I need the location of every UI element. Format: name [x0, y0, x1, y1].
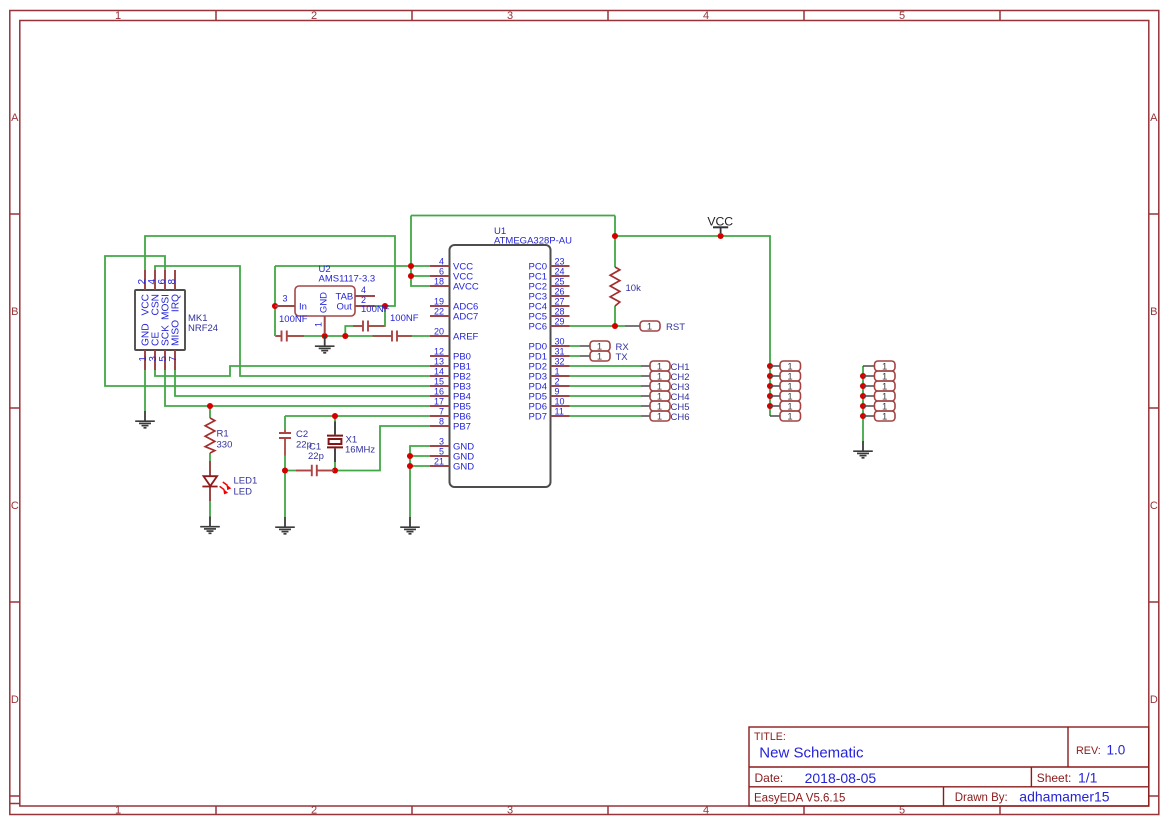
- MK1 pin names VCC CSN MOSI IRQ: [141, 294, 182, 320]
- wire: PC6 to RST: [570, 325, 626, 327]
- svg-text:adhamamer15: adhamamer15: [1019, 789, 1109, 805]
- wire: U2 Out cap branch: [345, 306, 385, 336]
- svg-text:CH6: CH6: [671, 412, 690, 423]
- U1 right pin names: [529, 262, 547, 423]
- junction VCC pin6: [408, 273, 414, 279]
- ground (header J2): [853, 441, 873, 458]
- svg-text:10k: 10k: [626, 283, 642, 294]
- svg-text:1/1: 1/1: [1078, 770, 1098, 786]
- svg-text:7: 7: [168, 356, 179, 362]
- svg-text:6: 6: [439, 267, 444, 277]
- svg-text:31: 31: [555, 347, 565, 357]
- wires: [105, 216, 863, 518]
- header J2 GND pins: [863, 361, 895, 423]
- svg-text:3: 3: [439, 437, 444, 447]
- svg-text:D: D: [1150, 694, 1158, 706]
- wire: VCC rail to header: [615, 236, 770, 416]
- svg-text:14: 14: [434, 367, 444, 377]
- svg-text:22p: 22p: [308, 451, 324, 462]
- svg-text:LED: LED: [234, 487, 253, 498]
- svg-text:29: 29: [555, 317, 565, 327]
- wire: NRF pin5 SCK to U1 PB5: [165, 370, 430, 406]
- svg-text:11: 11: [555, 407, 564, 417]
- svg-text:25: 25: [555, 277, 565, 287]
- svg-text:EasyEDA V5.6.15: EasyEDA V5.6.15: [754, 793, 845, 805]
- pad RST: [625, 321, 685, 333]
- svg-text:100NF: 100NF: [390, 313, 419, 324]
- svg-text:3: 3: [282, 294, 287, 304]
- junction AREF cap: [342, 333, 348, 339]
- svg-text:1: 1: [555, 367, 560, 377]
- svg-text:28: 28: [555, 307, 565, 317]
- svg-text:1: 1: [597, 352, 602, 363]
- svg-text:AMS1117-3.3: AMS1117-3.3: [319, 274, 376, 285]
- svg-text:16MHz: 16MHz: [345, 445, 375, 456]
- wire: NRF pin3 CE to U1 PB1: [155, 366, 430, 376]
- U1 left pin numbers: [434, 257, 444, 467]
- svg-text:1: 1: [115, 10, 121, 22]
- svg-text:Drawn By:: Drawn By:: [955, 792, 1008, 804]
- capacitor 100NF (In side): [276, 314, 308, 342]
- svg-text:TX: TX: [616, 352, 629, 363]
- junction GND21: [407, 463, 413, 469]
- svg-text:27: 27: [555, 297, 565, 307]
- wire: PD2-PD7 to CH pads: [570, 366, 642, 416]
- MK1 pin names GND CE SCK MISO: [141, 320, 182, 346]
- ic U1 ATMEGA328P-AU: [430, 226, 572, 487]
- svg-text:PB7: PB7: [453, 422, 471, 433]
- svg-text:A: A: [11, 112, 19, 124]
- junction U2 In: [272, 303, 278, 309]
- svg-text:TITLE:: TITLE:: [754, 731, 786, 743]
- LED light arrows: [220, 482, 232, 494]
- svg-text:5: 5: [439, 447, 444, 457]
- svg-text:9: 9: [555, 387, 560, 397]
- wire: 10k leads: [614, 236, 616, 326]
- svg-text:1: 1: [314, 322, 324, 327]
- svg-text:24: 24: [555, 267, 565, 277]
- svg-text:1: 1: [647, 322, 652, 333]
- svg-text:B: B: [1150, 306, 1157, 318]
- wire: NRF pin6 MOSI to U1 PB3: [105, 256, 430, 386]
- wire: R1 branch: [209, 406, 211, 517]
- wire: VCC net U2 In / U1 VCC: [275, 216, 615, 337]
- svg-text:GND: GND: [318, 292, 329, 313]
- junction C2/C1: [282, 467, 288, 473]
- U1 right pin numbers: [555, 257, 565, 417]
- svg-text:23: 23: [555, 257, 565, 267]
- capacitor C2 22p: [279, 429, 312, 456]
- capacitor C1 22p: [296, 442, 334, 477]
- resistor 10k: [610, 267, 641, 306]
- power flag VCC: [707, 215, 733, 234]
- svg-text:30: 30: [555, 337, 565, 347]
- module MK1 NRF24: [135, 270, 218, 370]
- svg-text:15: 15: [434, 377, 444, 387]
- MK1 pin numbers bottom 1 3 5 7: [138, 356, 179, 362]
- svg-text:1: 1: [115, 805, 121, 817]
- svg-text:B: B: [11, 306, 18, 318]
- junction 10k top: [612, 233, 618, 239]
- MK1 pin numbers top 2 4 6 8: [137, 279, 178, 285]
- svg-text:18: 18: [434, 277, 444, 287]
- svg-text:20: 20: [434, 327, 444, 337]
- svg-text:C: C: [11, 500, 19, 512]
- pad RX: [580, 341, 629, 353]
- svg-text:17: 17: [434, 397, 444, 407]
- svg-text:Date:: Date:: [755, 771, 784, 785]
- junction U2 GND rail: [322, 333, 328, 339]
- svg-text:22: 22: [434, 307, 444, 317]
- svg-text:8: 8: [439, 417, 444, 427]
- wire: X1 leads: [334, 416, 336, 471]
- svg-text:ATMEGA328P-AU: ATMEGA328P-AU: [494, 236, 572, 247]
- U1 right pin stubs: [551, 266, 570, 416]
- resistor R1 330: [205, 418, 232, 453]
- svg-text:PD7: PD7: [529, 412, 547, 423]
- wire: PB6 crystal net: [285, 415, 430, 417]
- U1 left pin names: [453, 262, 479, 473]
- wire: AREF / GND rail: [275, 335, 430, 337]
- junction X1/C1: [332, 467, 338, 473]
- svg-text:26: 26: [555, 287, 565, 297]
- ground (NRF pin1): [135, 411, 155, 428]
- wire: header2 rail to ground: [862, 366, 864, 441]
- header J1 VCC pins: [770, 361, 801, 423]
- crystal X1 16MHz: [327, 422, 375, 463]
- regulator U2 AMS1117-3.3: [275, 264, 375, 334]
- svg-text:1: 1: [657, 412, 662, 423]
- svg-text:4: 4: [361, 285, 366, 295]
- svg-text:C2: C2: [296, 429, 308, 440]
- svg-text:21: 21: [434, 457, 444, 467]
- pads CH1-CH6: [641, 361, 690, 423]
- svg-text:2: 2: [555, 377, 560, 387]
- svg-text:100NF: 100NF: [279, 314, 308, 325]
- svg-text:ADC7: ADC7: [453, 312, 478, 323]
- pad TX: [580, 351, 628, 363]
- svg-text:4: 4: [703, 10, 709, 22]
- ground (U2 GND): [315, 336, 335, 353]
- svg-text:1: 1: [882, 412, 887, 423]
- svg-text:2018-08-05: 2018-08-05: [805, 770, 877, 786]
- svg-text:A: A: [1150, 112, 1158, 124]
- svg-text:In: In: [299, 302, 307, 313]
- svg-text:5: 5: [899, 10, 905, 22]
- svg-text:R1: R1: [217, 429, 229, 440]
- svg-text:New Schematic: New Schematic: [759, 745, 864, 762]
- wire: NRF pin4 CSN to U1 PB2: [155, 266, 430, 376]
- svg-text:3: 3: [507, 805, 513, 817]
- ground (C2/C1): [275, 517, 295, 534]
- svg-text:2: 2: [311, 10, 317, 22]
- ground (U1 GND): [400, 517, 420, 534]
- svg-text:330: 330: [217, 440, 233, 451]
- junction VCC flag: [718, 233, 724, 239]
- wire: C1 / PB7 net: [285, 426, 430, 471]
- svg-text:10: 10: [555, 397, 565, 407]
- svg-text:3: 3: [507, 10, 513, 22]
- svg-text:Out: Out: [337, 302, 353, 313]
- svg-text:Sheet:: Sheet:: [1037, 771, 1072, 785]
- svg-text:IRQ: IRQ: [171, 294, 182, 312]
- U1 left pin stubs: [430, 266, 450, 466]
- svg-text:4: 4: [703, 805, 709, 817]
- svg-text:32: 32: [555, 357, 565, 367]
- svg-text:4: 4: [439, 257, 444, 267]
- svg-text:19: 19: [434, 297, 444, 307]
- svg-text:13: 13: [434, 357, 444, 367]
- svg-text:AREF: AREF: [453, 332, 479, 343]
- wire: C2 vertical: [284, 416, 286, 517]
- junction U2 Out: [382, 303, 388, 309]
- junction VCC pin4: [408, 263, 414, 269]
- svg-text:12: 12: [434, 347, 444, 357]
- svg-text:100NF: 100NF: [361, 304, 390, 315]
- svg-text:RST: RST: [666, 322, 685, 333]
- junction PB5/R1: [207, 403, 213, 409]
- junctions header J2 rail: [860, 373, 866, 379]
- wire: NRF pin1 GND down: [144, 370, 146, 411]
- wire: U1 GND pins: [410, 446, 430, 517]
- svg-text:GND: GND: [453, 462, 474, 473]
- svg-text:REV:: REV:: [1076, 745, 1101, 757]
- capacitor 100NF (Out side): [353, 304, 390, 332]
- junctions header J1 rail: [767, 363, 773, 369]
- svg-text:MISO: MISO: [171, 320, 182, 346]
- wire: NRF pin7 MISO to U1 PB4: [175, 370, 430, 396]
- svg-text:8: 8: [167, 279, 178, 285]
- svg-text:LED1: LED1: [234, 476, 258, 487]
- wire: PD0 PD1 to RX TX: [570, 346, 581, 356]
- led LED1: [202, 461, 257, 501]
- svg-text:1.0: 1.0: [1107, 743, 1126, 758]
- svg-text:7: 7: [439, 407, 444, 417]
- svg-text:NRF24: NRF24: [188, 323, 218, 334]
- capacitor 100NF (AREF): [373, 313, 419, 342]
- svg-text:PC6: PC6: [529, 322, 547, 333]
- svg-text:2: 2: [311, 805, 317, 817]
- junction PC6/RST: [612, 323, 618, 329]
- svg-text:1: 1: [787, 412, 792, 423]
- svg-text:C: C: [1150, 500, 1158, 512]
- junction PB6/X1: [332, 413, 338, 419]
- svg-text:D: D: [11, 694, 19, 706]
- ground (LED1): [200, 517, 220, 534]
- title block: [749, 727, 1149, 806]
- svg-text:16: 16: [434, 387, 444, 397]
- junction GND5: [407, 453, 413, 459]
- svg-text:AVCC: AVCC: [453, 282, 479, 293]
- wire: NRF pin2 VCC to U2 Out: [145, 236, 395, 306]
